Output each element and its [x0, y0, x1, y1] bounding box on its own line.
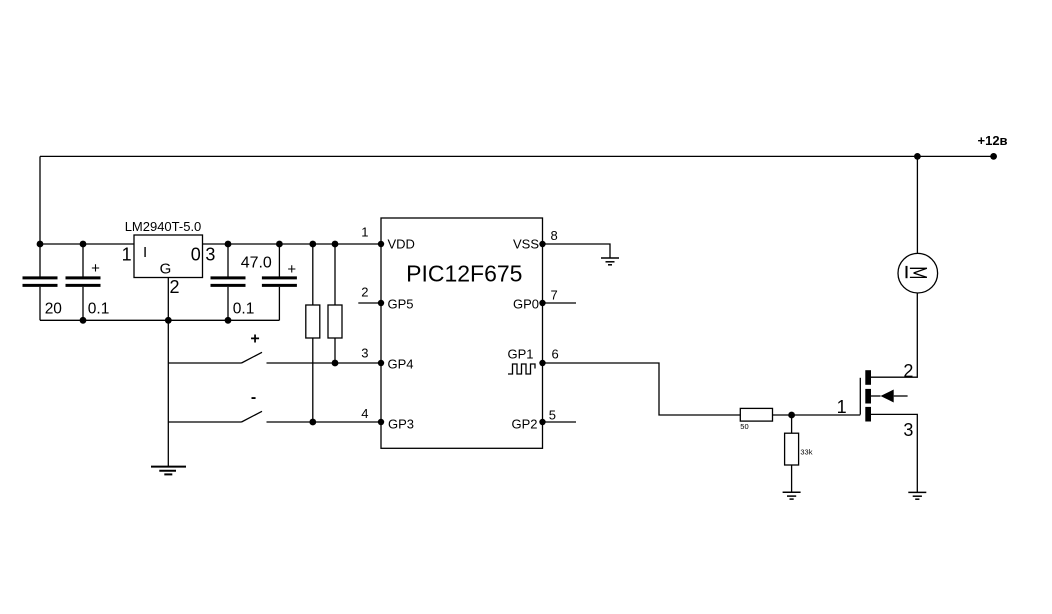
wire regulator ground pin down: [167, 278, 169, 467]
node pin 8 dot: [539, 241, 545, 247]
node junction output rail at R2 top: [332, 241, 339, 248]
svg-text:3: 3: [361, 346, 368, 361]
capacitor C1 20: [23, 244, 58, 320]
resistor R4 33k: [785, 415, 799, 492]
svg-text:-: -: [251, 389, 256, 406]
node pin 1 dot: [378, 241, 384, 247]
ground VSS: [601, 258, 619, 265]
svg-text:47.0: 47.0: [241, 254, 272, 271]
wire output rail from regulator pin 3 to PIC pin 1: [203, 243, 382, 245]
svg-text:20: 20: [45, 300, 63, 317]
node pin 4 dot: [378, 419, 384, 425]
wire left drop from +12V rail to input rail: [39, 156, 41, 244]
svg-text:GP2: GP2: [511, 417, 537, 432]
wire +12V top rail: [40, 155, 994, 157]
square wave symbol under GP1: [508, 364, 535, 374]
svg-text:0.1: 0.1: [88, 300, 110, 317]
wire R3 to MOSFET gate: [773, 414, 861, 416]
svg-text:0: 0: [191, 244, 201, 264]
node pin 2 dot: [378, 300, 384, 306]
transistor Q1 bottom bar (source): [865, 407, 871, 422]
svg-text:+: +: [287, 261, 296, 278]
node junction bottom rail at C2: [80, 317, 87, 324]
svg-text:GP5: GP5: [388, 296, 414, 311]
svg-text:1: 1: [837, 397, 847, 417]
wire S1 to PIC GP4: [267, 362, 382, 364]
transistor Q1 top bar (drain): [865, 370, 871, 385]
wire GP5 stub: [358, 302, 381, 304]
node junction output rail at C4: [276, 241, 283, 248]
capacitor C3 0.1: [211, 244, 246, 320]
svg-text:3: 3: [205, 244, 215, 264]
svg-text:+: +: [250, 331, 259, 348]
svg-text:3: 3: [903, 420, 913, 440]
capacitor C4 47.0 polarized: [262, 244, 297, 320]
wire motor top to +12V rail: [916, 156, 918, 253]
transistor Q1 middle bar (body): [865, 389, 871, 404]
svg-text:2: 2: [361, 285, 368, 300]
resistor R2 pull-up right: [328, 244, 342, 363]
svg-text:33k: 33k: [800, 447, 812, 456]
node pin 7 dot: [539, 300, 545, 306]
svg-text:4: 4: [361, 406, 368, 421]
switch S1 plus wire left: [168, 362, 241, 364]
capacitor C2 0.1 polarized: [66, 244, 101, 320]
regulator U2 LM2940T-5.0 box: [134, 235, 203, 278]
svg-text:0.1: 0.1: [233, 300, 255, 317]
svg-text:+12в: +12в: [978, 133, 1008, 148]
ground R4: [783, 492, 801, 499]
svg-text:5: 5: [549, 408, 556, 423]
svg-text:PIC12F675: PIC12F675: [406, 261, 522, 287]
node junction output rail at C3: [225, 241, 232, 248]
svg-text:50: 50: [740, 422, 748, 431]
wire GP1 to gate resistor: [543, 363, 741, 415]
node pin 6 dot: [539, 360, 545, 366]
svg-text:I: I: [143, 244, 147, 261]
svg-text:8: 8: [551, 228, 558, 243]
wire S2 to PIC GP3: [267, 421, 382, 423]
node pin 5 dot: [539, 419, 545, 425]
wire GP2 stub: [543, 421, 577, 423]
wire VSS to ground: [543, 244, 611, 258]
node junction gate divider: [788, 412, 795, 419]
svg-text:2: 2: [170, 277, 180, 297]
wire body arrow line from middle bar: [871, 395, 881, 397]
node junction bottom rail at C3: [225, 317, 232, 324]
svg-text:GP0: GP0: [513, 296, 539, 311]
switch S2 blade: [242, 411, 263, 422]
wire bottom ground rail: [40, 319, 279, 321]
svg-text:G: G: [160, 261, 172, 278]
svg-text:+: +: [91, 260, 100, 277]
svg-text:1: 1: [122, 244, 132, 264]
body diode arrow of Q1: [881, 390, 894, 403]
node junction R1 bottom on GP3 line: [309, 419, 316, 426]
wire junction dot motor branch on +12V rail: [914, 153, 921, 160]
resistor R1 pull-up left: [306, 244, 320, 422]
ground regulator: [151, 467, 186, 475]
svg-text:VDD: VDD: [388, 236, 415, 251]
node junction bottom rail at regulator ground wire: [165, 317, 172, 324]
wire drain pin 2: [871, 293, 917, 377]
svg-text:GP4: GP4: [388, 357, 414, 372]
wire after arrow: [894, 395, 908, 397]
motor M1 rotated M glyph: [907, 266, 927, 278]
node +12в supply endpoint: [990, 153, 997, 160]
transistor Q1 MOSFET gate line: [859, 378, 861, 415]
svg-text:2: 2: [903, 361, 913, 381]
wire GP0 stub: [543, 302, 577, 304]
node junction output rail at R1 top: [309, 241, 316, 248]
motor M1 circle: [898, 253, 938, 293]
wire input rail to regulator pin 1: [40, 243, 134, 245]
switch S1 blade: [242, 352, 263, 363]
node junction R2 bottom on GP4 line: [332, 360, 339, 367]
svg-text:1: 1: [361, 225, 368, 240]
node junction input rail at C1: [37, 241, 44, 248]
svg-text:GP3: GP3: [388, 417, 414, 432]
node junction input rail at C2: [80, 241, 87, 248]
svg-text:7: 7: [551, 288, 558, 303]
ground source Q1: [908, 492, 926, 499]
node pin 3 dot: [378, 360, 384, 366]
svg-text:VSS: VSS: [513, 236, 539, 251]
svg-text:GP1: GP1: [507, 347, 533, 362]
svg-text:LM2940T-5.0: LM2940T-5.0: [125, 219, 202, 234]
switch S2 minus wire left: [168, 421, 241, 423]
resistor R3 50: [740, 408, 772, 421]
wire source pin 3: [871, 414, 917, 492]
op-amp U1 PIC12F675 box: [381, 218, 543, 448]
svg-text:6: 6: [552, 347, 559, 362]
